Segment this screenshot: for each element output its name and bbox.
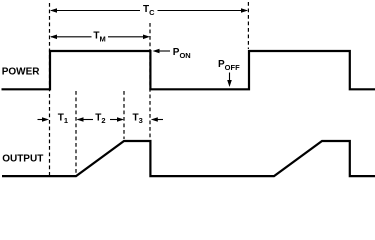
Tm dimension line — [51, 36, 147, 38]
POWER waveform — [2, 51, 375, 89]
svg-text:POWER: POWER — [2, 66, 41, 77]
T1 feeder arrow — [38, 119, 45, 121]
Tc left arrowhead — [50, 8, 57, 13]
svg-text:OUTPUT: OUTPUT — [2, 153, 43, 164]
Poff down arrow — [229, 73, 231, 82]
OUTPUT waveform — [2, 141, 375, 176]
Pon leader arrow — [158, 50, 170, 52]
Tc dimension line — [51, 10, 247, 12]
svg-text:PON: PON — [173, 47, 191, 60]
T2 dimension line — [78, 119, 123, 121]
dashed guide line at rising edge x=49.5 — [50, 2, 249, 175]
svg-text:TC: TC — [143, 4, 155, 17]
dashed guide line T1/T2 boundary x=76 — [75, 91, 77, 173]
dashed guide line T2/T3 boundary x=124 — [123, 91, 125, 139]
dashed guide line second rising edge x=248 — [247, 2, 249, 49]
T2 left arrowhead — [77, 117, 84, 122]
svg-text:T3: T3 — [133, 112, 143, 125]
svg-text:T1: T1 — [58, 112, 68, 125]
svg-text:TM: TM — [93, 31, 105, 44]
dashed guide line falling edge x=150 — [149, 23, 151, 139]
T2 right arrowhead — [117, 117, 124, 122]
Tc right arrowhead — [241, 8, 248, 13]
svg-text:POFF: POFF — [218, 59, 240, 72]
Tm right arrowhead — [143, 35, 150, 40]
svg-text:T2: T2 — [95, 112, 105, 125]
Tm left arrowhead — [50, 35, 57, 40]
T3 feeder arrow — [156, 119, 163, 121]
